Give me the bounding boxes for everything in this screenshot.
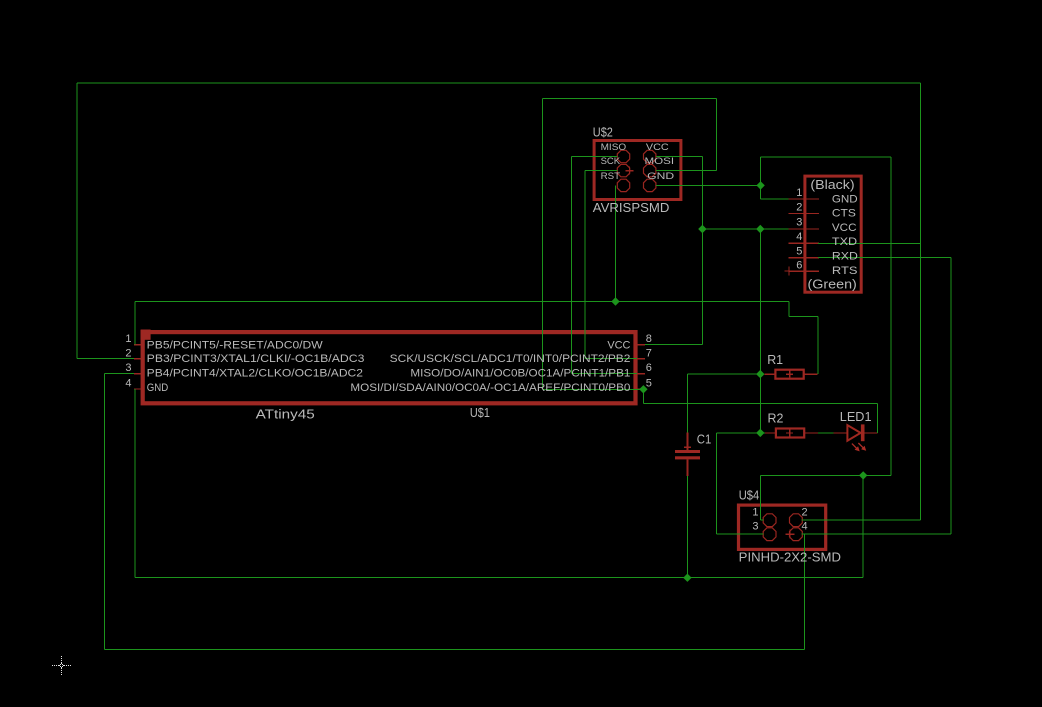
- svg-text:MISO: MISO: [601, 142, 627, 152]
- svg-text:5: 5: [646, 378, 652, 390]
- svg-text:4: 4: [125, 378, 131, 390]
- svg-text:U$4: U$4: [739, 489, 760, 503]
- svg-text:C1: C1: [697, 433, 712, 447]
- svg-text:4: 4: [796, 231, 802, 243]
- svg-text:2: 2: [796, 201, 802, 213]
- svg-text:SCK: SCK: [601, 156, 621, 166]
- svg-text:RTS: RTS: [832, 265, 858, 277]
- svg-text:U$1: U$1: [470, 406, 490, 420]
- svg-text:R2: R2: [768, 412, 784, 426]
- svg-text:1: 1: [125, 333, 131, 345]
- svg-text:4: 4: [802, 521, 808, 533]
- svg-text:PB3/PCINT3/XTAL1/CLKI/-OC1B/AD: PB3/PCINT3/XTAL1/CLKI/-OC1B/ADC3: [147, 353, 365, 365]
- svg-text:VCC: VCC: [646, 142, 669, 152]
- svg-text:TXD: TXD: [832, 236, 857, 248]
- svg-text:GND: GND: [832, 193, 858, 205]
- svg-text:(Black): (Black): [810, 178, 854, 192]
- svg-text:2: 2: [802, 506, 808, 518]
- svg-text:MISO/DO/AIN1/OC0B/OC1A/PCINT1/: MISO/DO/AIN1/OC0B/OC1A/PCINT1/PB1: [410, 368, 630, 380]
- svg-text:PB4/PCINT4/XTAL2/CLKO/OC1B/ADC: PB4/PCINT4/XTAL2/CLKO/OC1B/ADC2: [147, 368, 363, 380]
- svg-text:VCC: VCC: [832, 222, 857, 234]
- svg-text:6: 6: [796, 259, 802, 271]
- svg-text:ATtiny45: ATtiny45: [256, 407, 315, 421]
- svg-text:MOSI: MOSI: [645, 156, 675, 166]
- svg-text:U$2: U$2: [593, 126, 613, 140]
- svg-text:2: 2: [125, 347, 131, 359]
- svg-text:3: 3: [752, 521, 758, 533]
- svg-text:8: 8: [646, 333, 652, 345]
- svg-text:(Green): (Green): [808, 278, 857, 292]
- svg-text:PINHD-2X2-SMD: PINHD-2X2-SMD: [739, 550, 841, 564]
- svg-text:5: 5: [796, 245, 802, 257]
- svg-text:AVRISPSMD: AVRISPSMD: [593, 201, 670, 215]
- svg-text:GND: GND: [147, 382, 169, 394]
- svg-text:3: 3: [125, 362, 131, 374]
- svg-text:MOSI/DI/SDA/AIN0/OC0A/-OC1A/AR: MOSI/DI/SDA/AIN0/OC0A/-OC1A/AREF/PCINT0/…: [350, 382, 630, 394]
- svg-text:CTS: CTS: [832, 207, 856, 219]
- svg-text:6: 6: [646, 362, 652, 374]
- svg-text:VCC: VCC: [607, 339, 630, 351]
- svg-text:PB5/PCINT5/-RESET/ADC0/DW: PB5/PCINT5/-RESET/ADC0/DW: [147, 339, 324, 351]
- svg-text:SCK/USCK/SCL/ADC1/T0/INT0/PCIN: SCK/USCK/SCL/ADC1/T0/INT0/PCINT2/PB2: [390, 353, 631, 365]
- svg-text:GND: GND: [647, 171, 675, 181]
- svg-text:7: 7: [646, 347, 652, 359]
- svg-text:LED1: LED1: [840, 410, 872, 424]
- svg-text:1: 1: [752, 506, 758, 518]
- svg-text:1: 1: [796, 187, 802, 199]
- svg-text:RXD: RXD: [832, 251, 858, 263]
- svg-text:RST: RST: [601, 171, 621, 181]
- svg-text:3: 3: [796, 217, 802, 229]
- svg-text:R1: R1: [767, 353, 783, 367]
